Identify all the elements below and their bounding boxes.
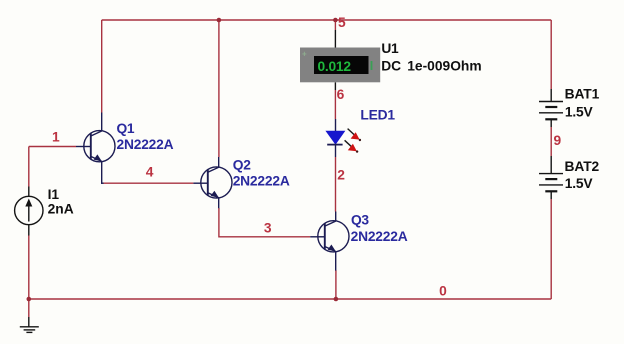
transistor Q1 [76, 113, 115, 184]
svg-text:3: 3 [264, 220, 272, 235]
svg-text:I1: I1 [48, 187, 60, 202]
ammeter U1 [300, 30, 380, 90]
svg-text:Q3: Q3 [351, 212, 369, 227]
svg-text:LED1: LED1 [360, 108, 395, 123]
battery BAT1 [539, 89, 563, 127]
svg-text:2N2222A: 2N2222A [351, 229, 408, 244]
LED LED1 [326, 119, 361, 157]
wire net5 Q2 collector riser [218, 20, 220, 157]
wire net3 Q2 emitter to Q3 base [219, 208, 310, 237]
battery BAT2 [539, 156, 563, 199]
svg-text:2: 2 [337, 168, 345, 183]
svg-text:1.5V: 1.5V [565, 105, 594, 120]
wire net0 Q3 emitter drop [335, 270, 337, 299]
current source I1 [15, 187, 43, 236]
node junction net5 at U1 [333, 18, 338, 23]
svg-text:Q2: Q2 [233, 158, 251, 173]
transistor Q3 [310, 212, 349, 271]
node junction net0 at I1/ground [27, 297, 32, 302]
svg-text:U1: U1 [381, 41, 399, 56]
wire net0 BAT2 bottom drop [550, 199, 552, 299]
wire net5 meter top stub [334, 20, 336, 30]
wire net5 Q1 collector drop [101, 20, 103, 113]
svg-text:BAT1: BAT1 [565, 86, 600, 101]
svg-text:2N2222A: 2N2222A [233, 174, 290, 189]
svg-text:9: 9 [554, 133, 562, 148]
ground [20, 317, 39, 332]
wire net6 meter to LED [334, 90, 336, 119]
wire net1 I1 top riser [28, 147, 30, 187]
svg-text:1.5V: 1.5V [565, 176, 594, 191]
svg-text:0.012: 0.012 [318, 59, 352, 74]
svg-text:2N2222A: 2N2222A [117, 137, 174, 152]
svg-text:Q1: Q1 [117, 121, 135, 136]
node junction net5 at Q2 [217, 18, 222, 23]
svg-text:2nA: 2nA [48, 202, 74, 217]
wire net0 ground stub [28, 299, 30, 317]
wire net4 Q1 emitter to Q2 base [103, 182, 193, 184]
svg-text:5: 5 [338, 15, 346, 30]
wire net2 LED to Q3 collector [335, 157, 337, 212]
wire net1 horizontal to Q1 base [29, 146, 76, 148]
wire net5 top rail [102, 19, 552, 21]
wire net0 I1 bottom drop [28, 235, 30, 299]
svg-text:BAT2: BAT2 [565, 159, 600, 174]
svg-text:4: 4 [146, 165, 154, 180]
svg-text:DC 1e-009Ohm: DC 1e-009Ohm [381, 59, 481, 74]
transistor Q2 [193, 157, 232, 208]
svg-text:1: 1 [52, 129, 60, 144]
svg-text:+: + [302, 50, 307, 59]
node junction net0 at Q3 [334, 297, 339, 302]
svg-text:0: 0 [439, 283, 447, 298]
wire net0 bottom rail [29, 298, 551, 300]
wire net5 BAT1 top drop [550, 20, 552, 89]
svg-text:6: 6 [337, 87, 345, 102]
wire net9 BAT1 to BAT2 [550, 127, 552, 156]
